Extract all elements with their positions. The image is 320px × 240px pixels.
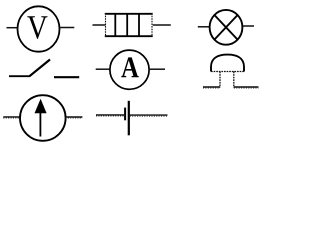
arrow stem: [39, 111, 41, 137]
fuse left wire: [93, 24, 106, 26]
current source circle: [20, 95, 66, 141]
fuse box divider 1: [114, 13, 116, 37]
letter A: [121, 57, 138, 77]
switch left lead: [9, 75, 30, 77]
battery right wire: [130, 114, 168, 116]
voltmeter left wire: [7, 27, 19, 29]
lamp left wire: [198, 26, 210, 28]
current source right wire: [65, 116, 82, 118]
current source left wire: [3, 116, 20, 118]
switch right lead: [54, 76, 79, 78]
letter V: [27, 16, 47, 39]
arrowhead: [35, 99, 47, 114]
fuse box left edge: [105, 13, 107, 37]
voltmeter right wire: [60, 27, 75, 29]
bell stem left: [219, 72, 221, 88]
bell dome base line: [211, 71, 244, 73]
fuse box bottom edge: [105, 35, 153, 37]
fuse box divider 3: [138, 13, 140, 37]
battery left wire: [96, 114, 124, 116]
lamp circle: [210, 10, 243, 45]
fuse box divider 2: [126, 13, 128, 37]
voltmeter circle: [18, 6, 60, 51]
bell left wire: [203, 86, 220, 88]
ammeter left wire: [96, 68, 110, 70]
battery long plate: [128, 101, 130, 136]
lamp cross stroke 1: [214, 15, 237, 40]
lamp right wire: [243, 25, 254, 27]
fuse box right edge: [151, 13, 153, 37]
ammeter circle: [110, 50, 149, 89]
bell dome: [211, 55, 244, 72]
bell stem right: [233, 72, 235, 88]
fuse box top edge: [105, 13, 153, 15]
switch blade: [30, 60, 51, 77]
fuse right wire: [153, 24, 171, 26]
bell right wire: [234, 86, 259, 88]
lamp cross stroke 2: [214, 15, 237, 40]
battery short plate: [124, 108, 126, 121]
ammeter right wire: [150, 68, 166, 70]
